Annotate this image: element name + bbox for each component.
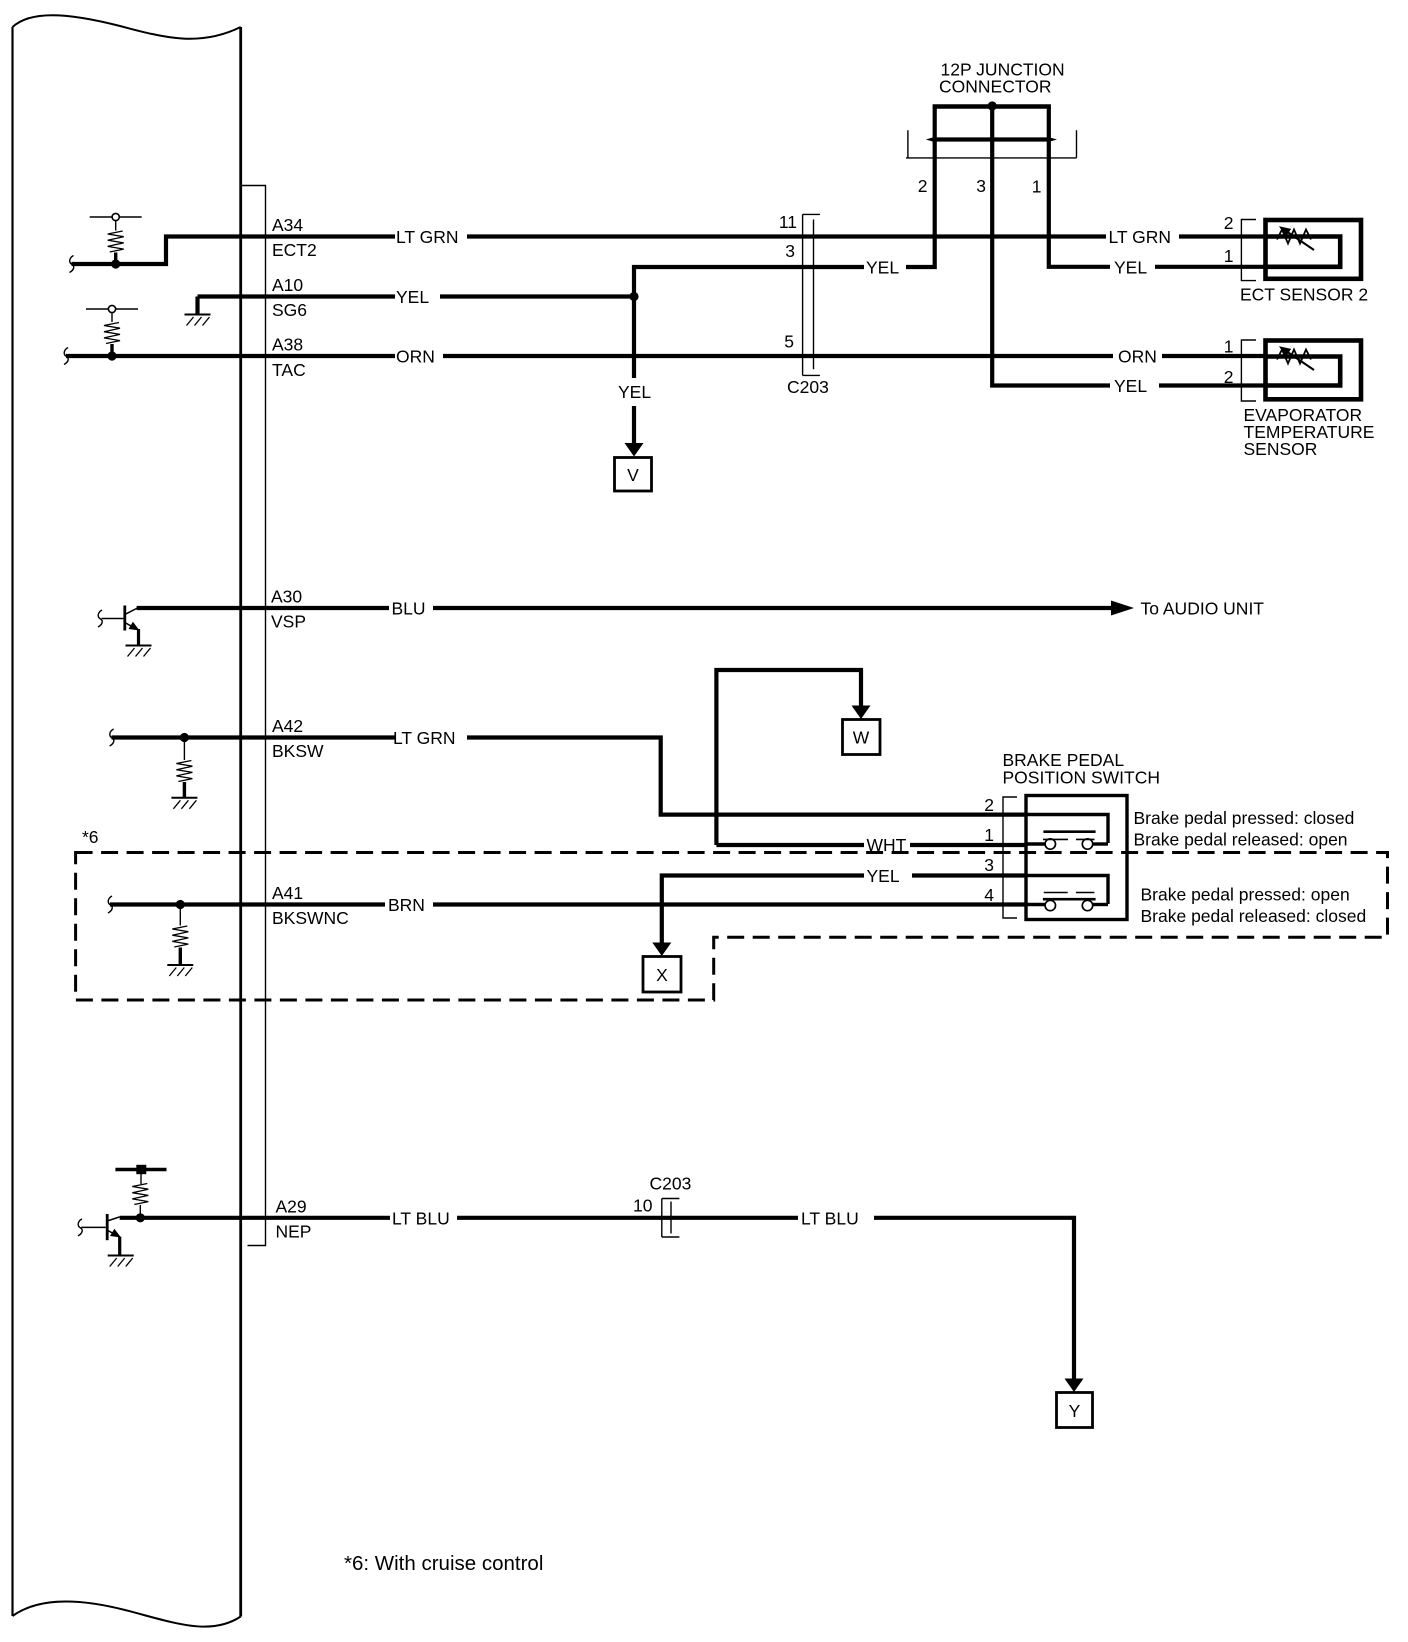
svg-text:BKSWNC: BKSWNC <box>272 908 349 928</box>
svg-text:V: V <box>627 465 639 485</box>
evaporator sensor box <box>1266 341 1362 400</box>
wire A38 ORN long <box>443 354 1113 358</box>
wire YEL up to 12P junction pin 2 <box>906 141 935 267</box>
node A41 junction <box>176 900 185 909</box>
node YEL junction <box>629 292 638 301</box>
svg-text:LT GRN: LT GRN <box>396 227 459 247</box>
transistor Q2 NEP <box>81 1214 119 1240</box>
svg-text:VSP: VSP <box>271 612 306 632</box>
svg-text:C203: C203 <box>650 1174 692 1194</box>
wire break slash A41 <box>108 896 112 913</box>
svg-text:ECT SENSOR 2: ECT SENSOR 2 <box>1240 285 1368 305</box>
ground A41 <box>167 965 193 976</box>
svg-text:Brake pedal pressed: closed: Brake pedal pressed: closed <box>1134 808 1355 828</box>
svg-text:A29: A29 <box>276 1197 307 1217</box>
svg-text:3: 3 <box>785 241 795 261</box>
svg-text:Brake pedal released: closed: Brake pedal released: closed <box>1141 906 1367 926</box>
svg-text:LT GRN: LT GRN <box>1109 227 1172 247</box>
wire YEL to switch <box>912 873 1027 877</box>
wire A29 LT BLU <box>120 1216 390 1220</box>
svg-text:1: 1 <box>1032 177 1042 197</box>
ground Q2 <box>108 1256 134 1267</box>
svg-text:LT GRN: LT GRN <box>393 728 456 748</box>
12P junction connector busbar <box>926 104 1057 142</box>
box X <box>643 957 681 993</box>
wire WHT pin 1 <box>716 843 864 847</box>
svg-text:2: 2 <box>918 176 928 196</box>
supply rail A34 <box>90 213 142 220</box>
transistor Q1 VSP <box>102 606 138 631</box>
svg-text:BLU: BLU <box>392 599 426 619</box>
emitter wire Q1 <box>137 629 140 646</box>
wire LT GRN into ECT sensor <box>1179 234 1265 238</box>
resistor A34 pull-up <box>115 221 117 231</box>
ECT sensor 2 element loop <box>1266 237 1340 267</box>
evaporator element loop <box>1266 357 1340 386</box>
svg-text:*6: With cruise control: *6: With cruise control <box>344 1552 543 1575</box>
node A38 junction <box>107 351 116 360</box>
wire A41 internal <box>110 902 385 906</box>
svg-text:CONNECTOR: CONNECTOR <box>939 77 1051 97</box>
wire WHT to switch <box>910 843 1027 847</box>
wire YEL into ECT sensor <box>1155 265 1265 269</box>
resistor A41 pull-down <box>179 905 181 926</box>
wire LT BLU to Y <box>874 1218 1074 1379</box>
ground SG6 <box>185 315 211 326</box>
wire 12P pin 1 down to ECT YEL <box>1049 139 1110 267</box>
wire A38 internal <box>66 354 395 358</box>
resistor A42 pull-down <box>183 738 185 761</box>
wire YEL pin 3 to X <box>662 876 864 944</box>
emitter wire Q2 <box>118 1237 121 1256</box>
svg-text:1: 1 <box>984 825 994 845</box>
resistor A29 pull-up <box>140 1174 142 1184</box>
svg-text:To AUDIO UNIT: To AUDIO UNIT <box>1141 599 1265 619</box>
thermistor evaporator <box>1277 346 1314 370</box>
svg-text:4: 4 <box>984 885 994 905</box>
svg-text:YEL: YEL <box>396 287 429 307</box>
svg-text:10: 10 <box>633 1196 653 1216</box>
wire arrow to V <box>632 406 636 444</box>
connector C203 <box>803 214 820 375</box>
supply rail A29 <box>115 1168 166 1171</box>
svg-text:3: 3 <box>976 176 986 196</box>
wire A10 internal to ground <box>198 297 396 315</box>
svg-text:TAC: TAC <box>272 360 306 380</box>
wire ORN into evaporator sensor <box>1162 354 1265 358</box>
svg-text:A34: A34 <box>272 215 303 235</box>
svg-text:NEP: NEP <box>276 1222 312 1242</box>
box Y <box>1057 1393 1093 1428</box>
svg-text:W: W <box>853 728 870 748</box>
connector C203 pin 10 <box>662 1199 680 1238</box>
svg-text:2: 2 <box>984 795 994 815</box>
wire YEL into evaporator sensor <box>1159 383 1265 387</box>
svg-text:*6: *6 <box>82 827 99 847</box>
svg-text:A30: A30 <box>271 587 302 607</box>
wire break slash A42 <box>110 729 114 746</box>
svg-text:C203: C203 <box>787 377 829 397</box>
svg-text:LT BLU: LT BLU <box>392 1209 450 1229</box>
svg-text:POSITION SWITCH: POSITION SWITCH <box>1003 768 1161 788</box>
ECM connector boundary thin line <box>242 186 266 1246</box>
evaporator sensor bracket <box>1241 340 1256 401</box>
switch upper contact NO <box>1045 839 1055 849</box>
wire 12P pin 3 down to evaporator YEL <box>992 139 1110 386</box>
svg-text:SENSOR: SENSOR <box>1244 439 1318 459</box>
wire A41 BRN to switch pin 4 <box>433 902 1027 906</box>
switch lower contact NC <box>1045 900 1055 910</box>
wire LT BLU through C203 <box>457 1216 798 1220</box>
resistor A38 pull-up <box>111 313 113 323</box>
switch upper wiring <box>1026 815 1108 844</box>
svg-text:A42: A42 <box>272 716 303 736</box>
wire A42 internal <box>112 735 395 739</box>
wire A30 BLU <box>137 606 389 610</box>
svg-text:1: 1 <box>1224 337 1234 357</box>
brake switch bracket <box>1003 797 1017 918</box>
base slash Q2 <box>78 1219 82 1236</box>
box V <box>615 458 652 492</box>
svg-text:1: 1 <box>1224 246 1234 266</box>
svg-text:YEL: YEL <box>867 866 900 886</box>
wire A42 LT GRN to switch pin 2 <box>467 738 1027 815</box>
svg-text:BRN: BRN <box>388 895 425 915</box>
svg-text:11: 11 <box>779 212 797 232</box>
box W <box>843 720 881 755</box>
svg-text:A38: A38 <box>272 335 303 355</box>
svg-text:A10: A10 <box>272 275 303 295</box>
svg-text:ECT2: ECT2 <box>272 240 317 260</box>
wire YEL vertical and to C203 pin 3 <box>634 267 864 378</box>
supply rail A38 <box>86 305 138 312</box>
node 12P top <box>988 101 997 110</box>
base slash Q1 <box>98 610 102 627</box>
svg-text:5: 5 <box>784 332 794 352</box>
switch lower wiring <box>1026 876 1108 905</box>
wire A10 YEL to junction node <box>440 294 634 298</box>
svg-text:YEL: YEL <box>866 258 899 278</box>
svg-text:3: 3 <box>984 855 994 875</box>
svg-text:Brake pedal released: open: Brake pedal released: open <box>1134 830 1348 850</box>
ECM body band <box>13 15 241 1626</box>
wire A34 internal <box>72 237 396 265</box>
svg-text:BKSW: BKSW <box>272 741 324 761</box>
svg-text:2: 2 <box>1224 213 1234 233</box>
svg-text:2: 2 <box>1224 367 1234 387</box>
svg-text:SG6: SG6 <box>272 300 307 320</box>
ground A42 <box>171 798 197 809</box>
brake switch box <box>1026 796 1127 920</box>
wire W loop <box>716 670 861 845</box>
node A29 junction <box>136 1213 145 1222</box>
svg-text:ORN: ORN <box>396 347 435 367</box>
wire BLU to audio unit <box>433 606 1111 610</box>
ECT sensor 2 bracket <box>1241 220 1256 281</box>
wire break slash A34 <box>70 256 74 273</box>
svg-text:A41: A41 <box>272 883 303 903</box>
svg-text:YEL: YEL <box>1114 376 1147 396</box>
svg-text:Y: Y <box>1069 1401 1081 1421</box>
thermistor ECT <box>1277 226 1314 250</box>
svg-text:Brake pedal pressed: open: Brake pedal pressed: open <box>1141 885 1350 905</box>
svg-text:ORN: ORN <box>1118 347 1157 367</box>
wire break slash A38 <box>64 348 68 365</box>
wire A34 LT GRN to C203 and sensor <box>467 234 1106 238</box>
ground Q1 <box>126 646 152 657</box>
svg-text:LT BLU: LT BLU <box>801 1209 859 1229</box>
node A34 junction <box>111 259 120 268</box>
svg-text:YEL: YEL <box>618 382 651 402</box>
svg-text:YEL: YEL <box>1114 258 1147 278</box>
ECT sensor 2 box <box>1266 220 1362 279</box>
dashed option box <box>76 853 1388 1001</box>
svg-text:X: X <box>656 965 668 985</box>
12P connector bracket <box>906 130 1077 158</box>
node A42 junction <box>180 733 189 742</box>
